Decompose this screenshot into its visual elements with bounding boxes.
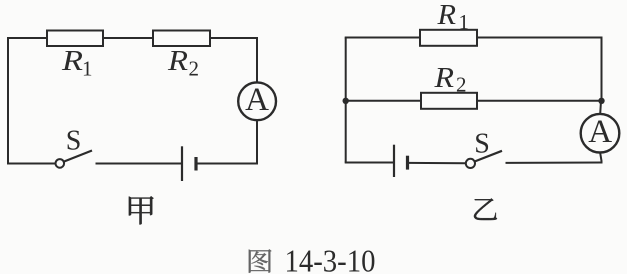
wire: right vertical upper of circuit 甲: [256, 37, 258, 83]
wire: bottom-left segment of circuit 甲: [7, 163, 56, 165]
wire: switch to battery of circuit 甲: [96, 163, 183, 165]
battery long plate of circuit 乙: [393, 145, 395, 177]
caption 图 glyph: [249, 249, 272, 272]
switch S pivot of circuit 甲: [56, 159, 65, 168]
resistor R2 of circuit 甲: [153, 31, 210, 47]
wire: ammeter to bottom-right corner of circuit 乙: [600, 153, 601, 164]
battery long plate of circuit 甲: [181, 146, 183, 181]
svg-text:R: R: [436, 0, 456, 31]
wire: top-left segment of circuit 甲: [7, 37, 48, 39]
svg-text:1: 1: [459, 10, 470, 34]
wire: right vertical upper of circuit 乙: [601, 37, 603, 102]
ammeter A of circuit 甲: [238, 82, 276, 120]
resistor R1 of circuit 甲: [47, 31, 103, 47]
svg-text:2: 2: [456, 73, 467, 97]
resistor R1 of circuit 乙: [420, 30, 477, 46]
svg-text:1: 1: [82, 57, 93, 81]
switch S pivot of circuit 乙: [466, 159, 475, 168]
svg-text:R: R: [433, 63, 454, 94]
wire: battery to bottom-right corner of circuit 甲: [196, 163, 258, 165]
wire: right vertical lower of circuit 甲: [256, 120, 258, 165]
svg-text:S: S: [474, 129, 490, 160]
resistor R2 of circuit 乙: [421, 93, 477, 109]
wire: middle-right segment of circuit 乙: [477, 100, 602, 102]
svg-text:R: R: [61, 46, 83, 77]
battery short plate of circuit 甲: [194, 157, 197, 171]
wire: battery to switch of circuit 乙: [408, 162, 467, 164]
node junction right of circuit 乙: [598, 98, 604, 104]
label 甲: [129, 196, 154, 224]
wire: top-middle segment of circuit 甲: [103, 37, 153, 39]
ammeter A of circuit 乙: [581, 114, 620, 153]
wire: top-right segment of circuit 甲: [210, 37, 258, 39]
svg-text:A: A: [588, 114, 612, 150]
wire: top-left segment of circuit 乙: [345, 37, 421, 39]
svg-text:S: S: [66, 126, 82, 157]
switch S lever of circuit 甲: [64, 151, 92, 162]
wire: left vertical of circuit 甲: [7, 38, 9, 164]
switch S lever of circuit 乙: [475, 151, 502, 162]
label 乙: [474, 198, 497, 220]
wire: junction to ammeter of circuit 乙: [599, 101, 602, 114]
svg-text:14-3-10: 14-3-10: [285, 244, 376, 274]
svg-text:R: R: [167, 46, 188, 77]
node junction left of circuit 乙: [343, 98, 349, 104]
battery short plate of circuit 乙: [406, 156, 409, 170]
svg-text:A: A: [245, 82, 269, 118]
wire: bottom-left segment of circuit 乙: [345, 162, 394, 164]
wire: middle-left segment of circuit 乙: [346, 100, 422, 102]
svg-text:2: 2: [189, 57, 200, 81]
wire: switch to bottom-right corner of circuit 乙: [506, 162, 603, 164]
wire: left vertical of circuit 乙: [345, 38, 347, 163]
wire: top-right segment of circuit 乙: [477, 37, 603, 39]
